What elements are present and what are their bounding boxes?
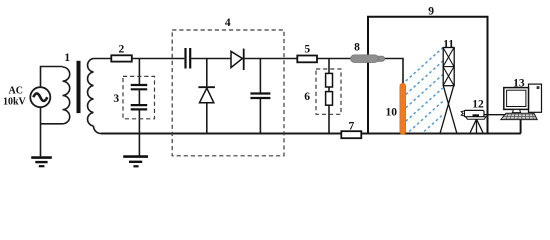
svg-text:2: 2 (119, 44, 125, 56)
svg-text:5: 5 (304, 44, 310, 56)
svg-text:4: 4 (225, 17, 231, 29)
svg-text:9: 9 (428, 6, 434, 18)
svg-text:6: 6 (304, 91, 310, 103)
svg-text:AC: AC (8, 85, 22, 96)
svg-text:1: 1 (64, 52, 70, 64)
svg-text:10kV: 10kV (3, 97, 27, 108)
svg-text:8: 8 (354, 42, 360, 54)
svg-text:12: 12 (472, 98, 484, 110)
svg-text:11: 11 (443, 38, 454, 50)
svg-text:10: 10 (385, 107, 397, 119)
svg-text:3: 3 (113, 93, 119, 105)
svg-text:13: 13 (513, 77, 525, 89)
svg-text:7: 7 (349, 121, 355, 133)
